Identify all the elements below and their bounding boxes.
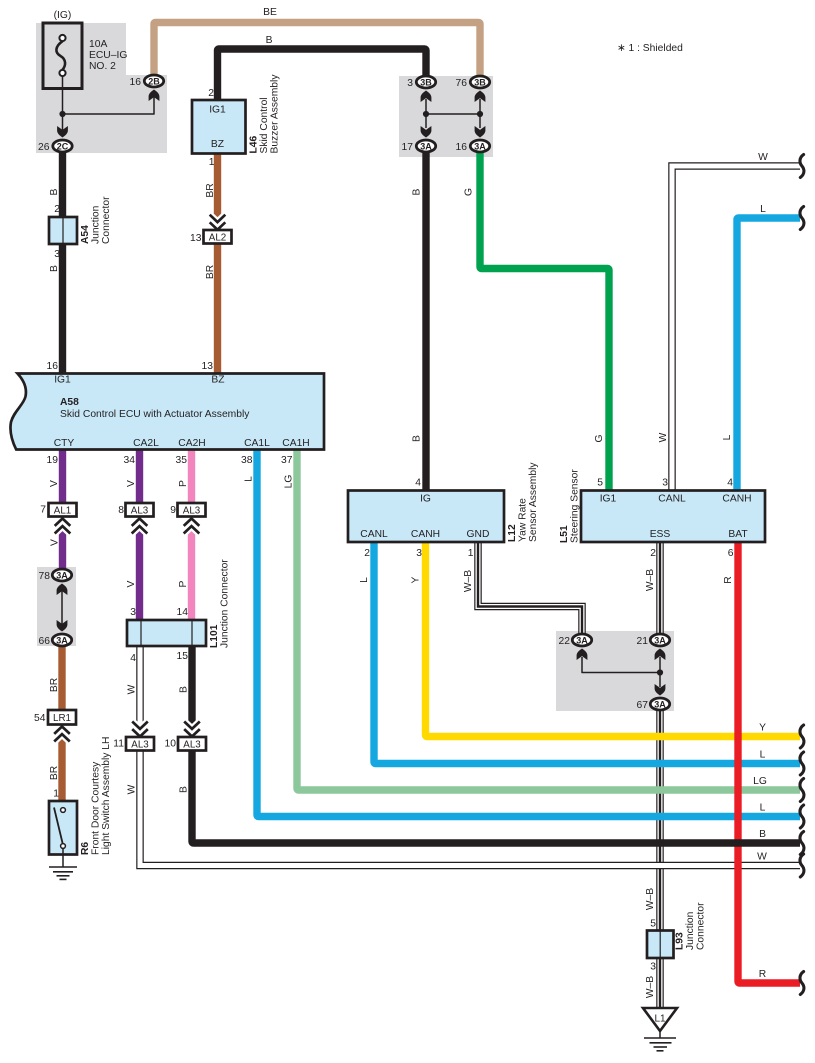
svg-text:B: B xyxy=(179,786,190,793)
junction connector L101 xyxy=(127,620,206,646)
svg-text:W–B: W–B xyxy=(645,888,656,910)
svg-text:CANH: CANH xyxy=(722,494,751,505)
svg-text:22: 22 xyxy=(559,636,571,647)
wire V violet A58 CTY pin 19 through AL1 to 3A pin 78 xyxy=(59,450,66,569)
svg-text:Yaw Rate: Yaw Rate xyxy=(518,498,529,542)
svg-text:AL2: AL2 xyxy=(209,232,226,243)
svg-text:IG1: IG1 xyxy=(600,494,617,505)
component L51 Steering Sensor xyxy=(581,491,765,543)
component L46 Skid Control Buzzer Assembly xyxy=(192,100,246,154)
wire B black from L101 pin 15 through AL3 pin 10 to right break xyxy=(192,645,800,843)
arrow into 2C xyxy=(57,126,68,138)
svg-text:∗ 1 : Shielded: ∗ 1 : Shielded xyxy=(617,43,683,54)
break mark wire Y xyxy=(800,725,804,748)
svg-text:W: W xyxy=(757,852,767,863)
wire L blue A58 CA1L pin 38 to right break xyxy=(257,450,800,817)
wire L blue from L12 CANL pin 2 to right break xyxy=(374,541,800,764)
arrow into 3A pin 21 xyxy=(655,649,666,661)
connector block 3B/3A background xyxy=(399,76,493,157)
svg-text:W–B: W–B xyxy=(645,976,656,998)
fuse element curve xyxy=(56,41,65,70)
svg-text:B: B xyxy=(49,265,60,272)
break mark wire W bottom xyxy=(800,854,804,877)
break mark wire L top xyxy=(800,207,804,230)
svg-text:3A: 3A xyxy=(56,635,68,645)
svg-text:L: L xyxy=(244,476,255,482)
svg-text:G: G xyxy=(464,188,475,196)
arrow into 3A pin 67 xyxy=(655,684,666,696)
wire W-B from L12 GND pin 1 to 3A pin 22 xyxy=(478,541,582,634)
svg-text:AL1: AL1 xyxy=(54,505,71,516)
connector LR1 pin 54 xyxy=(48,710,76,725)
arrow pair into AL2 xyxy=(210,215,226,230)
svg-text:R: R xyxy=(759,969,766,980)
svg-text:L: L xyxy=(760,750,766,761)
svg-text:P: P xyxy=(178,580,189,587)
svg-text:14: 14 xyxy=(177,607,189,618)
svg-text:(IG): (IG) xyxy=(54,10,72,21)
svg-text:ESS: ESS xyxy=(650,529,671,540)
svg-text:3A: 3A xyxy=(654,635,666,645)
connector 3A pin 66 xyxy=(52,634,71,646)
svg-text:3B: 3B xyxy=(474,77,486,87)
junction connector A54 xyxy=(49,217,77,244)
svg-text:BZ: BZ xyxy=(211,139,224,150)
arrow into 2B xyxy=(149,90,160,102)
arrow into 3A pin 78 xyxy=(57,584,68,596)
svg-text:Sensor Assembly: Sensor Assembly xyxy=(528,462,539,542)
fuse terminal top circle xyxy=(59,35,65,41)
svg-text:10A: 10A xyxy=(89,39,107,50)
arrow pair into AL1 xyxy=(55,519,71,534)
svg-text:B: B xyxy=(266,35,273,46)
break mark wire LG xyxy=(800,779,804,802)
connector 3A pin 78 xyxy=(52,569,71,581)
ground symbol below L1 xyxy=(644,1038,676,1051)
switch R6 contact top xyxy=(61,808,66,813)
svg-text:19: 19 xyxy=(47,455,59,466)
connector 3A pin 16 xyxy=(470,140,489,152)
connector AL3 pin 11 xyxy=(126,737,154,751)
svg-text:Connector: Connector xyxy=(101,196,112,244)
svg-text:2: 2 xyxy=(208,88,214,99)
arrow into 3A pin 66 xyxy=(57,620,68,632)
junction node 3B3 column xyxy=(423,111,429,117)
svg-text:L93: L93 xyxy=(675,932,686,950)
svg-text:16: 16 xyxy=(130,77,142,88)
svg-text:54: 54 xyxy=(34,713,46,724)
svg-text:3: 3 xyxy=(407,78,413,89)
arrow into 3A pin 22 xyxy=(577,649,588,661)
svg-text:LG: LG xyxy=(753,776,767,787)
svg-text:L46: L46 xyxy=(249,135,260,153)
wire W-B from L51 ESS pin 2 to 3A pin 21 xyxy=(656,542,664,634)
svg-text:2: 2 xyxy=(364,548,370,559)
svg-text:3A: 3A xyxy=(474,141,486,151)
svg-text:4: 4 xyxy=(415,478,421,489)
svg-text:BE: BE xyxy=(263,7,277,18)
svg-text:CA2H: CA2H xyxy=(178,438,205,449)
wire thin R6 to ground xyxy=(62,849,64,868)
svg-text:G: G xyxy=(594,434,605,442)
ECU A58 Skid Control ECU with Actuator Assembly xyxy=(11,374,324,450)
svg-text:5: 5 xyxy=(650,919,656,930)
svg-text:AL3: AL3 xyxy=(183,505,201,516)
wire thin crosslink 3B/3A xyxy=(426,113,480,115)
svg-text:BR: BR xyxy=(49,766,60,780)
wire thin from 3A21 to 3A67 xyxy=(659,657,661,687)
arrow into 3B pin 3 xyxy=(421,91,432,103)
svg-text:38: 38 xyxy=(241,455,253,466)
svg-text:3: 3 xyxy=(54,249,60,260)
svg-text:ECU–IG: ECU–IG xyxy=(89,50,127,61)
svg-text:13: 13 xyxy=(202,361,214,372)
break mark wire W top xyxy=(800,155,804,178)
svg-text:2B: 2B xyxy=(148,76,160,86)
svg-text:L51: L51 xyxy=(559,525,570,543)
svg-text:3B: 3B xyxy=(420,77,432,87)
svg-text:CANL: CANL xyxy=(658,494,686,505)
svg-text:2: 2 xyxy=(54,204,60,215)
svg-text:CANL: CANL xyxy=(360,529,388,540)
arrow pair into AL3 pin 10 xyxy=(184,722,200,737)
svg-text:P: P xyxy=(178,480,189,487)
break mark wire R xyxy=(800,972,804,995)
svg-text:67: 67 xyxy=(637,700,649,711)
ground symbol below R6 xyxy=(49,867,77,879)
arrow pair into AL3 pin 11 xyxy=(132,722,148,737)
svg-text:2C: 2C xyxy=(57,141,69,151)
svg-text:A58: A58 xyxy=(60,397,79,408)
arrow into 3A pin 17 xyxy=(421,126,432,138)
svg-text:B: B xyxy=(412,435,423,442)
wire W white from L101 pin 4 through AL3 pin 11 to right break xyxy=(140,645,800,866)
switch R6 lever xyxy=(54,808,63,846)
svg-text:LR1: LR1 xyxy=(53,713,71,724)
component L12 Yaw Rate Sensor Assembly xyxy=(348,491,504,543)
svg-text:L: L xyxy=(359,577,370,583)
fuse terminal bottom circle xyxy=(59,70,65,76)
junction node 3A crosslink xyxy=(657,669,663,675)
break mark wire B xyxy=(800,832,804,855)
wire B black from 3A pin 17 to L12 IG pin 4 xyxy=(422,152,429,490)
svg-text:3A: 3A xyxy=(576,635,588,645)
switch R6 Front Door Courtesy Light Switch body xyxy=(49,801,77,855)
svg-text:3A: 3A xyxy=(654,699,666,709)
wire thin 3B76 to 3A16 xyxy=(479,99,481,128)
svg-text:BR: BR xyxy=(205,183,216,197)
svg-text:11: 11 xyxy=(113,739,124,750)
svg-text:B: B xyxy=(412,188,423,195)
junction node below fuse xyxy=(59,111,65,117)
svg-text:Y: Y xyxy=(411,576,422,583)
svg-text:IG: IG xyxy=(420,494,431,505)
svg-text:IG1: IG1 xyxy=(54,375,71,386)
svg-text:CA1H: CA1H xyxy=(282,438,309,449)
svg-text:2: 2 xyxy=(650,548,656,559)
wire BR brown from L46 BZ pin 1 through AL2 to A58 BZ pin 13 xyxy=(214,152,221,373)
svg-text:NO. 2: NO. 2 xyxy=(89,61,116,72)
svg-text:B: B xyxy=(179,686,190,693)
svg-text:Skid Control: Skid Control xyxy=(259,97,270,153)
connector 3A pin 22 xyxy=(572,634,591,646)
connector AL2 pin 13 xyxy=(204,230,232,244)
junction connector L93 xyxy=(647,931,674,959)
arrow pair into LR1 xyxy=(54,727,70,742)
arrow pair into AL3 pin 9 xyxy=(184,519,200,534)
svg-text:Buzzer Assembly: Buzzer Assembly xyxy=(270,74,281,154)
svg-text:Light Switch Assembly LH: Light Switch Assembly LH xyxy=(101,737,112,855)
svg-text:7: 7 xyxy=(40,505,46,516)
svg-text:4: 4 xyxy=(130,653,136,664)
wire thin from fuse to node and 2C xyxy=(62,76,64,131)
connector 3A pin 21 xyxy=(650,634,669,646)
svg-text:21: 21 xyxy=(637,636,649,647)
svg-text:L: L xyxy=(722,434,733,440)
svg-text:BR: BR xyxy=(49,678,60,692)
svg-text:BAT: BAT xyxy=(728,529,748,540)
svg-text:3: 3 xyxy=(650,962,656,973)
svg-text:34: 34 xyxy=(124,455,136,466)
wire thin L1 to ground xyxy=(659,1031,661,1038)
svg-text:BR: BR xyxy=(205,265,216,279)
svg-text:IG1: IG1 xyxy=(209,105,226,116)
svg-text:V: V xyxy=(126,580,137,587)
connector 3B pin 3 xyxy=(416,76,435,88)
svg-text:AL3: AL3 xyxy=(131,739,149,750)
svg-text:B: B xyxy=(49,188,60,195)
ground point L1 triangle xyxy=(643,1008,677,1031)
wire W-B from 3A pin 67 through L93 to ground L1 xyxy=(656,710,664,1010)
svg-text:Y: Y xyxy=(759,723,766,734)
connector 2C pin 26 xyxy=(53,140,72,152)
svg-text:15: 15 xyxy=(177,651,189,662)
svg-text:A54: A54 xyxy=(80,225,91,244)
svg-text:13: 13 xyxy=(190,233,202,244)
arrow into 3A pin 16 xyxy=(475,126,486,138)
connector block 3A 78/66 background xyxy=(37,567,76,646)
svg-text:Junction: Junction xyxy=(685,911,696,950)
svg-text:L: L xyxy=(760,204,766,215)
wire G green from 3A pin 16 to L51 IG1 pin 5 xyxy=(480,152,609,490)
connector block 3A 22/21/67 background xyxy=(556,631,674,711)
arrow pair into AL3 pin 8 xyxy=(132,519,148,534)
svg-text:10: 10 xyxy=(165,739,177,750)
wire thin from 3A22 to crosslink xyxy=(582,657,660,673)
svg-text:78: 78 xyxy=(39,571,51,582)
svg-text:W–B: W–B xyxy=(463,570,474,592)
svg-text:LG: LG xyxy=(284,475,295,489)
svg-text:CA2L: CA2L xyxy=(133,438,159,449)
fuse block background (IG power feed) xyxy=(36,23,167,153)
wire BR brown from 3A pin 66 through LR1 to R6 pin 1 xyxy=(58,646,65,802)
wire P pink A58 CA2H pin 35 through AL3 to L101 pin 14 xyxy=(188,450,195,621)
svg-text:Connector: Connector xyxy=(696,902,707,950)
svg-text:Skid Control ECU with Actuator: Skid Control ECU with Actuator Assembly xyxy=(60,409,250,420)
connector 3B pin 76 xyxy=(470,76,489,88)
svg-text:9: 9 xyxy=(170,505,176,516)
connector AL3 pin 8 xyxy=(126,503,154,517)
svg-text:L1: L1 xyxy=(654,1014,666,1025)
connector 2B pin 16 xyxy=(144,75,163,87)
svg-text:35: 35 xyxy=(176,455,188,466)
svg-text:17: 17 xyxy=(402,142,414,153)
svg-text:W: W xyxy=(758,152,768,163)
svg-text:1: 1 xyxy=(209,157,215,168)
svg-text:26: 26 xyxy=(38,142,50,153)
svg-text:CA1L: CA1L xyxy=(244,438,270,449)
svg-text:L: L xyxy=(760,803,766,814)
wire Y yellow from L12 CANH pin 3 to right break xyxy=(426,541,801,737)
svg-text:W–B: W–B xyxy=(645,569,656,591)
svg-text:Steering Sensor: Steering Sensor xyxy=(570,469,581,543)
svg-text:3: 3 xyxy=(662,478,668,489)
fuse 10A ECU-IG NO.2 body xyxy=(43,23,82,89)
svg-text:37: 37 xyxy=(281,455,293,466)
arrow into 3B pin 76 xyxy=(475,91,486,103)
connector 3A pin 17 xyxy=(416,140,435,152)
svg-text:3A: 3A xyxy=(420,141,432,151)
svg-text:1: 1 xyxy=(468,548,474,559)
svg-text:4: 4 xyxy=(727,478,733,489)
svg-text:5: 5 xyxy=(597,478,603,489)
wire W white from right break to L51 CANL pin 3 xyxy=(672,166,800,490)
wire B black ignition column 2C through A54 to A58 IG1 pin 16 xyxy=(59,152,66,373)
svg-text:W: W xyxy=(658,432,669,442)
svg-text:W: W xyxy=(127,784,138,794)
break mark wire L mid2 xyxy=(800,805,804,828)
svg-text:6: 6 xyxy=(728,548,734,559)
svg-text:V: V xyxy=(126,480,137,487)
svg-text:Junction: Junction xyxy=(91,205,102,244)
svg-text:3: 3 xyxy=(416,548,422,559)
svg-text:CANH: CANH xyxy=(411,529,440,540)
svg-text:Front Door Courtesy: Front Door Courtesy xyxy=(91,761,102,855)
svg-text:CTY: CTY xyxy=(54,438,75,449)
connector AL3 pin 9 xyxy=(178,503,206,517)
svg-text:16: 16 xyxy=(456,142,468,153)
wire LG light-green A58 CA1H pin 37 to right break xyxy=(297,450,800,790)
wire B black from L46 IG1 pin 2 to 3B pin 3 xyxy=(218,49,427,102)
break mark wire L mid1 xyxy=(800,752,804,775)
svg-text:BZ: BZ xyxy=(211,375,224,386)
svg-text:R: R xyxy=(723,576,734,583)
svg-text:AL3: AL3 xyxy=(131,505,149,516)
svg-text:GND: GND xyxy=(467,529,490,540)
svg-text:W: W xyxy=(127,684,138,694)
svg-text:V: V xyxy=(49,480,60,487)
svg-text:L12: L12 xyxy=(507,524,518,542)
svg-text:76: 76 xyxy=(456,78,468,89)
connector 3A pin 67 xyxy=(650,698,669,710)
svg-text:1: 1 xyxy=(53,789,59,800)
svg-text:B: B xyxy=(759,829,766,840)
svg-text:R6: R6 xyxy=(80,842,91,855)
connector AL1 pin 7 xyxy=(49,503,77,517)
switch R6 contact bottom xyxy=(61,844,66,849)
wire thin branch from node to 2B xyxy=(63,97,155,114)
svg-text:3A: 3A xyxy=(56,570,68,580)
wire L blue from right break to L51 CANH pin 4 xyxy=(737,218,800,490)
svg-text:AL3: AL3 xyxy=(183,739,201,750)
svg-text:V: V xyxy=(50,539,61,546)
connector AL3 pin 10 xyxy=(178,737,206,751)
wire thin 3B3 to 3A17 xyxy=(425,99,427,128)
svg-text:66: 66 xyxy=(39,636,51,647)
svg-text:16: 16 xyxy=(47,361,59,372)
wire V violet A58 CA2L pin 34 through AL3 to L101 pin 3 xyxy=(136,450,143,621)
wire R red from L51 BAT pin 6 to right break xyxy=(738,542,800,983)
svg-text:Junction Connector: Junction Connector xyxy=(220,559,231,648)
svg-text:L101: L101 xyxy=(209,624,220,648)
wire thin between 3A78 and 3A66 xyxy=(61,591,63,624)
svg-text:3: 3 xyxy=(130,607,136,618)
svg-text:8: 8 xyxy=(118,505,124,516)
junction node 3B76 column xyxy=(477,111,483,117)
wire BE beige from 2B to 3B pin 76 xyxy=(154,23,480,80)
